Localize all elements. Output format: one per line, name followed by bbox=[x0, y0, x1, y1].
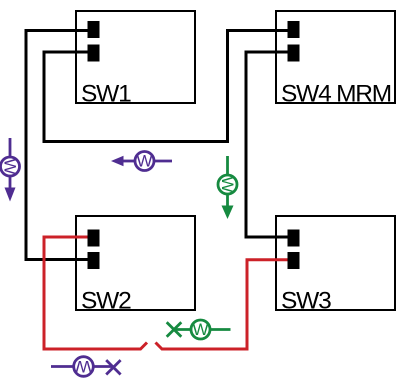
purple flow symbol left vertical: circle W bbox=[1, 157, 20, 176]
wire red SW2 port1 to break bbox=[44, 237, 147, 349]
purple flow symbol horizontal arrow: circle W bbox=[135, 152, 154, 171]
purple flow symbol horizontal arrow: arrowhead left bbox=[111, 156, 124, 166]
svg-text:W: W bbox=[192, 320, 208, 339]
wire SW4 port2 to SW3 port1 bbox=[246, 52, 290, 237]
svg-text:W: W bbox=[75, 357, 91, 376]
port SW2 p1 bbox=[88, 230, 100, 247]
green flow symbol vertical: wire bbox=[226, 156, 229, 206]
purple blocked flow symbol bottom: circle W rotated bbox=[74, 357, 94, 377]
green flow symbol vertical: circle W bbox=[218, 175, 237, 194]
wire SW1 port1 to SW2 port2 bbox=[26, 31, 90, 260]
port SW4 p1 bbox=[288, 21, 300, 38]
switch SW1 box bbox=[76, 11, 195, 103]
port SW3 p2 bbox=[288, 252, 300, 269]
purple flow symbol horizontal arrow: wire bbox=[123, 160, 173, 163]
wire SW1 port2 to SW4 port1 bbox=[44, 31, 290, 142]
wire red break to SW3 port2 bbox=[156, 260, 291, 349]
port SW1 p2 bbox=[88, 45, 100, 62]
port SW2 p2 bbox=[88, 252, 100, 269]
port SW1 p1 bbox=[88, 21, 100, 38]
purple blocked flow symbol bottom: wire bbox=[51, 360, 121, 374]
switch SW3 box bbox=[276, 216, 395, 310]
green blocked flow symbol bottom: X mark bbox=[167, 322, 231, 337]
green flow symbol vertical: arrowhead down bbox=[222, 206, 234, 220]
green blocked flow symbol bottom: circle W bbox=[191, 320, 210, 339]
purple flow symbol left vertical: arrowhead down bbox=[5, 188, 16, 202]
green blocked flow symbol bottom: wire bbox=[174, 328, 192, 331]
svg-text:W: W bbox=[136, 152, 152, 171]
svg-text:SW4 MRM: SW4 MRM bbox=[281, 81, 391, 108]
svg-text:SW3: SW3 bbox=[281, 288, 331, 315]
svg-text:W: W bbox=[1, 158, 20, 174]
purple flow symbol left vertical: wire bbox=[9, 138, 12, 188]
svg-text:W: W bbox=[218, 176, 237, 192]
svg-text:SW1: SW1 bbox=[81, 81, 131, 108]
port SW4 p2 bbox=[288, 45, 300, 62]
switch SW4 MRM box bbox=[276, 11, 395, 103]
port SW3 p1 bbox=[288, 230, 300, 247]
svg-text:SW2: SW2 bbox=[81, 288, 131, 315]
purple blocked flow symbol bottom: X mark bbox=[106, 360, 120, 374]
switch SW2 box bbox=[76, 216, 195, 310]
